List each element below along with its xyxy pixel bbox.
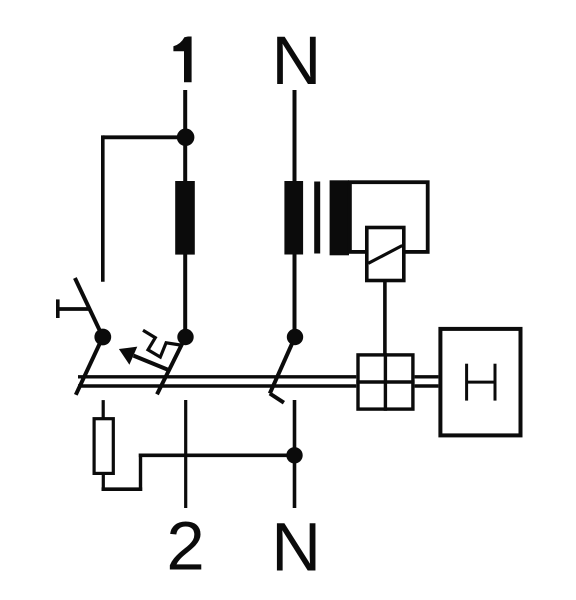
svg-text:N: N — [271, 508, 321, 585]
svg-text:N: N — [271, 22, 321, 99]
svg-text:2: 2 — [166, 508, 204, 585]
